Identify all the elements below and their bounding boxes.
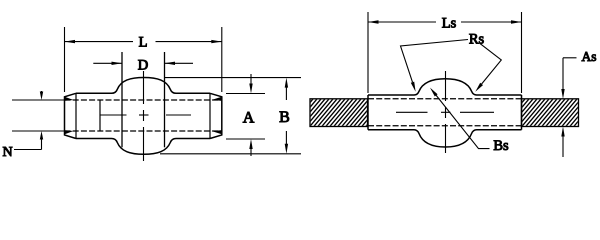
pipe hatched left of right view <box>282 93 402 131</box>
dimension B <box>160 78 301 154</box>
pipe hidden line top right view <box>368 98 522 100</box>
socket chamfer wedge left-bottom <box>65 130 74 134</box>
socket chamfer wedge right-bottom <box>212 130 222 134</box>
svg-text:N: N <box>2 145 12 160</box>
horizontal centerline right view <box>396 111 494 113</box>
svg-text:L: L <box>139 34 148 50</box>
vertical centerline right view <box>445 71 447 153</box>
socket bottom shoulder <box>99 100 101 132</box>
dimension L <box>65 27 222 92</box>
svg-text:As: As <box>581 49 596 64</box>
svg-text:A: A <box>243 110 255 127</box>
horizontal centerline left view <box>100 114 191 116</box>
dimension As <box>563 58 577 157</box>
vertical centerline left view <box>143 71 145 161</box>
svg-text:B: B <box>279 109 290 126</box>
socket chamfer wedge left-top <box>65 97 74 101</box>
chamfer base line left end <box>75 93 77 138</box>
union body outline left view <box>65 78 222 155</box>
socket bore hidden line top <box>65 99 222 101</box>
dimension D <box>122 52 165 147</box>
dimension Ls <box>368 12 522 93</box>
svg-text:Ls: Ls <box>442 15 457 31</box>
socket bore hidden line bottom <box>65 130 222 132</box>
svg-text:Bs: Bs <box>493 138 509 154</box>
svg-text:D: D <box>138 57 148 73</box>
chamfer base line right end <box>209 93 211 138</box>
dimension A <box>226 74 265 156</box>
dimension N <box>12 91 65 150</box>
pipe hatched right of right view <box>494 93 600 131</box>
pipe hidden line bottom right view <box>368 125 522 127</box>
socket chamfer wedge right-top <box>212 97 222 101</box>
union body outline right view <box>368 79 522 147</box>
